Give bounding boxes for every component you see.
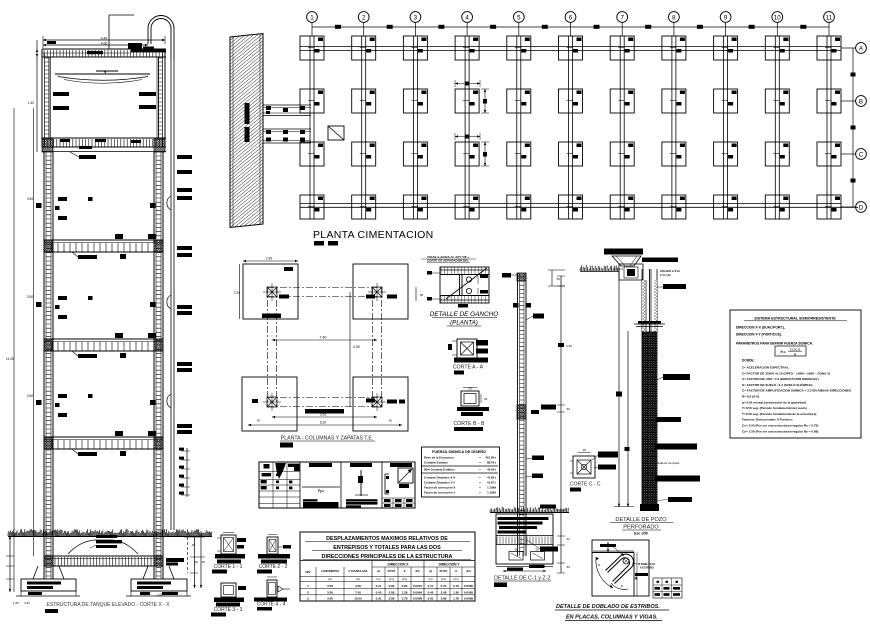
corte 1-1 detail: [212, 533, 246, 574]
pozo perforado - right leader labels: [655, 269, 700, 502]
pozo perforado - upper caged shaft: [634, 269, 665, 332]
zapata plan - top and left dimensions: [234, 257, 424, 320]
svg-text:U= FACTOR DE USO =1.5 (EDIFI: U= FACTOR DE USO =1.5 (EDIFICACION ESENC…: [742, 377, 819, 381]
zapata plan - bottom dimensions: [248, 413, 402, 427]
desplazamientos maximos table: [300, 532, 475, 601]
detalle C-1 y Z-2 title: [494, 576, 551, 588]
svg-text:Cortante Dinámico X-X: Cortante Dinámico X-X: [424, 476, 455, 480]
svg-text:=: =: [479, 456, 481, 460]
svg-text:SOLADO e=0.10: SOLADO e=0.10: [660, 269, 680, 273]
frame beam level 3: [44, 431, 163, 456]
svg-text:DIRECCION X-X (DUAL/PORT.),: DIRECCION X-X (DUAL/PORT.),: [736, 326, 785, 330]
corte B-B drawing: [461, 387, 488, 407]
tank shell - right wall: [157, 49, 165, 147]
svg-text:10.50: 10.50: [354, 597, 362, 601]
svg-text:41.84 t: 41.84 t: [487, 476, 496, 480]
detalle C-1 ground hatch: [490, 507, 569, 513]
svg-text:DETALLE DE C-1 y Z-2: DETALLE DE C-1 y Z-2: [494, 576, 551, 582]
doblado de estribos titles: [555, 604, 669, 621]
svg-text:3.50: 3.50: [355, 584, 361, 588]
detalle C-1 right dimension line: [557, 276, 572, 573]
zapata plan - dash-dot tie lines: [267, 287, 382, 407]
svg-text:0.80: 0.80: [389, 584, 395, 588]
svg-text:11: 11: [826, 14, 833, 21]
plan title PLANTA CIMENTACION: [313, 229, 434, 246]
corte C-C title: [570, 482, 601, 492]
svg-text:Relleno compact.: Relleno compact.: [657, 461, 680, 465]
svg-text:.40: .40: [566, 537, 570, 541]
svg-text:0.0099: 0.0099: [464, 597, 474, 601]
svg-text:.60: .60: [201, 560, 205, 564]
detalle C-1 top tags and dims: [502, 270, 565, 320]
svg-text:0.0072: 0.0072: [413, 584, 423, 588]
pozo perforado - top labels: [604, 249, 678, 263]
svg-text:3.50: 3.50: [327, 584, 333, 588]
svg-text:.40: .40: [582, 448, 586, 452]
row bubbles A-D: [841, 43, 866, 213]
pozo perforado - stippled shaft body: [640, 332, 659, 511]
svg-text:2: 2: [362, 14, 366, 21]
svg-text:CORTE 3 - 3: CORTE 3 - 3: [214, 607, 243, 613]
svg-text:(cm): (cm): [402, 577, 407, 581]
column schedule table: [259, 462, 415, 508]
svg-text:3.86: 3.86: [441, 597, 447, 601]
svg-text:Cortante Estático: Cortante Estático: [424, 461, 448, 465]
svg-text:.45: .45: [256, 419, 260, 423]
svg-text:.45: .45: [191, 543, 195, 547]
footing grid 44 footings with column marks: [300, 36, 841, 219]
row D longitudinal beam: [300, 204, 858, 208]
svg-text:Δ: Δ: [455, 569, 457, 573]
svg-text:90% Cortante Estático: 90% Cortante Estático: [424, 468, 455, 472]
svg-text:PLANTA CIMENTACION: PLANTA CIMENTACION: [313, 229, 434, 241]
svg-text:Esc 1/50: Esc 1/50: [634, 532, 648, 536]
left column dimension line: [6, 108, 34, 592]
svg-text:2.08: 2.08: [441, 590, 447, 594]
zapata plan - center dimension lines: [272, 292, 377, 407]
svg-text:.45: .45: [388, 419, 392, 423]
pozo perforado - title: [610, 517, 673, 536]
svg-text:3.86: 3.86: [389, 597, 395, 601]
wall connection beam upper: [263, 105, 311, 116]
svg-text:(m): (m): [429, 577, 433, 581]
svg-text:.60: .60: [566, 407, 570, 411]
svg-text:3.50: 3.50: [327, 590, 333, 594]
fuerza sismica de diseno box: [421, 447, 500, 497]
corte 2-2 detail: [257, 535, 291, 574]
svg-text:SISTEMA ESTRUCTURAL SISMORRESI: SISTEMA ESTRUCTURAL SISMORRESISTENTE: [754, 317, 836, 321]
svg-text:421.84 t: 421.84 t: [485, 456, 496, 460]
svg-text:DIRECCION Y-Y (PORTICOS).: DIRECCION Y-Y (PORTICOS).: [736, 333, 782, 337]
svg-text:1.36: 1.36: [453, 590, 459, 594]
svg-text:25: 25: [468, 387, 472, 391]
svg-text:C:H 1:12: C:H 1:12: [660, 273, 671, 277]
water level symbol: [55, 71, 150, 83]
svg-text:PARAMETROS PARA DEFINIR FUE: PARAMETROS PARA DEFINIR FUERZA SISMICA:: [736, 342, 813, 346]
right column of tank support frame: [154, 152, 163, 579]
column strip beams vertical: [310, 36, 831, 219]
corte A-A title: [453, 358, 488, 375]
svg-text:1.05: 1.05: [13, 601, 19, 605]
svg-text:Factor de corrección X: Factor de corrección X: [424, 486, 455, 490]
svg-text:S= FACTOR DE SUELO =1.4 (SUE: S= FACTOR DE SUELO =1.4 (SUELO FLEXIBLE): [742, 383, 812, 387]
svg-text:CORTE 2 - 2: CORTE 2 - 2: [259, 564, 288, 570]
svg-text:D/TOT: D/TOT: [440, 569, 448, 573]
svg-text:Peso de la Estructura: Peso de la Estructura: [424, 456, 454, 460]
svg-text:Δ/h: Δ/h: [415, 569, 420, 573]
svg-text:=: =: [479, 486, 481, 490]
svg-text:R: R: [794, 353, 796, 357]
tank shell - top slab: [42, 49, 166, 57]
svg-text:4.40: 4.40: [101, 37, 108, 41]
svg-text:50: 50: [514, 548, 518, 552]
svg-text:(m): (m): [328, 577, 332, 581]
detalle de gancho - header note: [421, 255, 476, 263]
detalle de gancho - title: [430, 304, 498, 327]
svg-text:7.00: 7.00: [355, 590, 361, 594]
svg-text:0.0094: 0.0094: [413, 590, 423, 594]
svg-text:Z= ACELERACION ESPECTRAL: Z= ACELERACION ESPECTRAL: [742, 366, 789, 370]
svg-text:11.05: 11.05: [6, 357, 14, 361]
doblado de estribos small table: [653, 578, 682, 598]
svg-text:0.91: 0.91: [376, 597, 382, 601]
svg-text:1.05: 1.05: [157, 593, 163, 597]
top tie line with spacer tags: [312, 25, 829, 29]
svg-text:0.72: 0.72: [453, 584, 459, 588]
svg-text:DETALLE DE POZO: DETALLE DE POZO: [615, 517, 667, 523]
svg-text:Z= FACTOR DE ZONA =0.15 (DPTO: Z= FACTOR DE ZONA =0.15 (DPTO – LIMA– LI…: [742, 371, 830, 375]
elevated tank elevation - vent pipe: [109, 15, 134, 49]
svg-text:.60: .60: [566, 565, 570, 569]
svg-text:88.79 t: 88.79 t: [487, 461, 496, 465]
svg-text:4: 4: [465, 14, 469, 21]
svg-text:3.50: 3.50: [27, 394, 33, 398]
svg-text:4.30: 4.30: [24, 601, 30, 605]
svg-text:0.0099: 0.0099: [413, 597, 423, 601]
svg-text:R: R: [598, 563, 600, 567]
corte 3-3 detail: [211, 583, 246, 617]
svg-text:1.1804: 1.1804: [487, 491, 496, 495]
tank shell - left wall: [42, 49, 51, 147]
svg-text:h ENTREPISO: h ENTREPISO: [321, 569, 339, 573]
svg-text:0.91: 0.91: [428, 597, 434, 601]
svg-text:=: =: [479, 476, 481, 480]
svg-text:7: 7: [620, 14, 624, 21]
left footing: [16, 566, 80, 596]
svg-text:EN PLACAS, COLUMNAS Y VIGAS.: EN PLACAS, COLUMNAS Y VIGAS.: [566, 615, 658, 621]
svg-text:Factor de corrección Y: Factor de corrección Y: [424, 491, 455, 495]
svg-text:1.78: 1.78: [402, 597, 408, 601]
retaining wall with hatch: [230, 0, 263, 289]
svg-text:DETALLE DE GANCHO: DETALLE DE GANCHO: [430, 311, 498, 318]
svg-text:1.78: 1.78: [453, 597, 459, 601]
drain box with diagonal: [328, 126, 344, 140]
svg-text:h ACUMULADA: h ACUMULADA: [348, 569, 367, 573]
svg-text:.40: .40: [194, 560, 198, 564]
frame beam level 2: [44, 333, 163, 358]
corte B-B title: [453, 407, 489, 431]
svg-text:PLANTA - COLUMNAS Y ZAPATAS T.: PLANTA - COLUMNAS Y ZAPATAS T.E.: [281, 436, 373, 442]
svg-text:0.80: 0.80: [402, 584, 408, 588]
svg-text:2.08: 2.08: [389, 590, 395, 594]
svg-text:6: 6: [569, 14, 573, 21]
zapata plan - four footing squares: [242, 264, 408, 431]
svg-text:C= FACTOR DE AMPLIFICACION SI: C= FACTOR DE AMPLIFICACION SISMICA < 2.5…: [742, 389, 851, 393]
svg-text:DESPLAZAMIENTOS MAXIMOS RELA: DESPLAZAMIENTOS MAXIMOS RELATIVOS DE: [326, 536, 448, 542]
foundation dimension lines left: [6, 536, 30, 605]
row A longitudinal beam: [300, 47, 841, 51]
svg-text:Δ: Δ: [404, 569, 406, 573]
svg-text:2.30: 2.30: [234, 291, 240, 295]
svg-text:Factores Direccionales X Po: Factores Direccionales X Porticos:: [742, 418, 793, 422]
detalle de gancho - plan drawing: [427, 267, 489, 303]
detalle Z-2 footing: [496, 514, 558, 572]
wall connection beam lower: [263, 129, 311, 143]
svg-text:Cy= 2.50 (Por ser una es: Cy= 2.50 (Por ser una estructura irregul…: [742, 429, 818, 433]
svg-text:FUERZA SISMICA DE DISEÑO: FUERZA SISMICA DE DISEÑO: [432, 449, 486, 454]
pozo perforado - left dimension lines: [614, 269, 634, 507]
right footing: [126, 566, 191, 597]
detalle C-1 mid tags: [526, 405, 556, 509]
svg-text:42.64 t: 42.64 t: [487, 468, 496, 472]
svg-text:0.0065: 0.0065: [464, 584, 474, 588]
svg-text:.50: .50: [419, 293, 424, 297]
elevation title ESTRUCTURA DE TANQUE ELEVADO - CORTE X - X: [45, 602, 170, 613]
svg-text:2.30: 2.30: [266, 257, 273, 261]
pozo perforado - ground hatch at cap: [580, 265, 619, 272]
right dimension stack: [179, 448, 190, 497]
svg-text:1: 1: [310, 14, 314, 21]
svg-text:CORTE C - C: CORTE C - C: [570, 482, 601, 488]
svg-text:(m): (m): [356, 577, 360, 581]
svg-text:CORTE A - A: CORTE A - A: [453, 365, 484, 371]
svg-text:g= 9.81 m/seg² (aceleración: g= 9.81 m/seg² (aceleración de la graved…: [742, 400, 806, 404]
svg-text:10: 10: [774, 14, 781, 21]
zapata plan - title: [280, 436, 375, 448]
svg-text:.50: .50: [556, 277, 560, 281]
column rebar tags left side: [36, 197, 156, 417]
zapata plan - label tags: [252, 267, 405, 414]
svg-text:9: 9: [724, 14, 728, 21]
left column of tank support frame: [44, 152, 53, 579]
corte C-C drawing: [570, 448, 618, 478]
svg-text:Δ/h: Δ/h: [466, 569, 471, 573]
tank shell - bottom slab: [42, 138, 166, 152]
svg-text:DETALLE DE DOBLADO DE ESTRIBOS: DETALLE DE DOBLADO DE ESTRIBOS.: [556, 604, 660, 610]
svg-text:3.50: 3.50: [27, 295, 33, 299]
svg-text:DIRECCIONES PRINCIPALES DE: DIRECCIONES PRINCIPALES DE LA ESTRUCTURA: [322, 554, 453, 560]
svg-text:3.50: 3.50: [327, 597, 333, 601]
svg-text:41.87 t: 41.87 t: [487, 481, 496, 485]
svg-text:ESTRUCTURA DE TANQUE ELEVADO -: ESTRUCTURA DE TANQUE ELEVADO - CORTE X -…: [47, 602, 171, 608]
svg-text:3.50: 3.50: [27, 197, 33, 201]
svg-text:3: 3: [414, 14, 418, 21]
tank rebar label tags: [47, 41, 156, 159]
svg-text:DIRECCION X: DIRECCION X: [388, 563, 410, 567]
svg-text:=: =: [479, 481, 481, 485]
svg-text:Cortante Dinámico Y-Y: Cortante Dinámico Y-Y: [424, 481, 455, 485]
svg-text:5: 5: [517, 14, 521, 21]
svg-text:1.28: 1.28: [402, 590, 408, 594]
svg-text:CORTE 1 - 1: CORTE 1 - 1: [214, 564, 243, 570]
external rebar tags right side: [167, 155, 192, 434]
svg-text:PERFORADO: PERFORADO: [623, 525, 659, 531]
svg-text:D: D: [859, 204, 864, 211]
foundation tie beam: [44, 556, 184, 566]
foundation dimension lines right: [184, 531, 205, 588]
svg-text:Ø DOBL. Vmn: Ø DOBL. Vmn: [638, 562, 656, 566]
svg-text:D/TOT: D/TOT: [388, 569, 396, 573]
svg-text:8: 8: [672, 14, 676, 21]
svg-text:DIRECCION Y: DIRECCION Y: [439, 563, 461, 567]
svg-text:0.11: 0.11: [428, 584, 434, 588]
svg-text:1.1969: 1.1969: [487, 486, 496, 490]
svg-text:T=0.56 seg. (Periodo fundame: T=0.56 seg. (Periodo fundamental del sue…: [742, 406, 807, 410]
svg-text:CORTE 4 - 4: CORTE 4 - 4: [257, 602, 286, 608]
svg-text:=: =: [479, 468, 481, 472]
tank left dimension line: [28, 40, 38, 152]
right dimension line of plan: [851, 48, 856, 207]
svg-text:=: =: [479, 491, 481, 495]
svg-text:ENTREPISOS Y TOTALES PARA: ENTREPISOS Y TOTALES PARA LAS DOS: [333, 545, 441, 551]
structural system notes box: [730, 310, 861, 438]
svg-text:4.00: 4.00: [101, 42, 108, 46]
elevated tank elevation - overflow pipe with return bend: [148, 16, 174, 531]
svg-text:0.45: 0.45: [428, 590, 434, 594]
svg-text:NIV: NIV: [305, 570, 310, 574]
svg-text:=: =: [479, 461, 481, 465]
corte 4-4 detail: [254, 577, 290, 611]
svg-text:1.40: 1.40: [28, 101, 34, 105]
svg-text:(cm): (cm): [389, 577, 394, 581]
doblado de estribos detail box: [592, 540, 656, 596]
ground line with grass hatch: [8, 529, 212, 537]
svg-text:CORTE DE SEPARADOR DEL: CORTE DE SEPARADOR DEL: [427, 259, 469, 263]
svg-text:0.72: 0.72: [441, 584, 447, 588]
svg-text:(cm): (cm): [453, 577, 458, 581]
svg-text:T=0.58 seg. (Periodo fundame: T=0.58 seg. (Periodo fundamental de la e…: [742, 412, 816, 416]
svg-text:Cx= 2.50 (Por ser una es: Cx= 2.50 (Por ser una estructura irregul…: [742, 424, 818, 428]
svg-text:25: 25: [484, 397, 488, 401]
svg-text:R= 8.0 (X-X): R= 8.0 (X-X): [742, 395, 759, 399]
detalle C-1 column shaft: [517, 273, 526, 556]
grid bubbles 1-11 with vertical grid lines: [307, 12, 835, 36]
backfill mound curve with tags: [68, 535, 138, 554]
svg-text:(m): (m): [377, 577, 381, 581]
svg-text:Z.U.C.S: Z.U.C.S: [790, 347, 800, 351]
zapata plan - column marks: [263, 283, 386, 411]
svg-text:0.0095: 0.0095: [464, 590, 474, 594]
svg-text:(PLANTA): (PLANTA): [450, 320, 478, 327]
frame beam level 1: [44, 234, 163, 259]
svg-text:6.20: 6.20: [320, 421, 326, 425]
svg-text:H =: H =: [780, 350, 785, 354]
svg-text:0.11: 0.11: [376, 584, 382, 588]
tank top dimension lines 4.40 / 4.00: [43, 36, 165, 48]
pozo perforado - funnel and cap: [612, 256, 643, 280]
svg-text:(cm): (cm): [441, 577, 446, 581]
svg-text:4.30: 4.30: [566, 344, 572, 348]
svg-text:7.40: 7.40: [320, 336, 327, 340]
svg-text:0.45: 0.45: [376, 590, 382, 594]
svg-text:4.05: 4.05: [353, 345, 360, 349]
dimension marks near grid 4 footings: [455, 80, 489, 166]
svg-text:C: C: [859, 151, 864, 158]
svg-text:6 ESTRIBO: 6 ESTRIBO: [640, 566, 654, 570]
svg-text:CORTE B - B: CORTE B - B: [453, 421, 485, 427]
corte A-A drawing: [448, 339, 488, 358]
svg-text:B: B: [859, 98, 863, 105]
svg-text:DONDE :: DONDE :: [742, 359, 755, 363]
svg-text:Fy=: Fy=: [318, 489, 324, 493]
